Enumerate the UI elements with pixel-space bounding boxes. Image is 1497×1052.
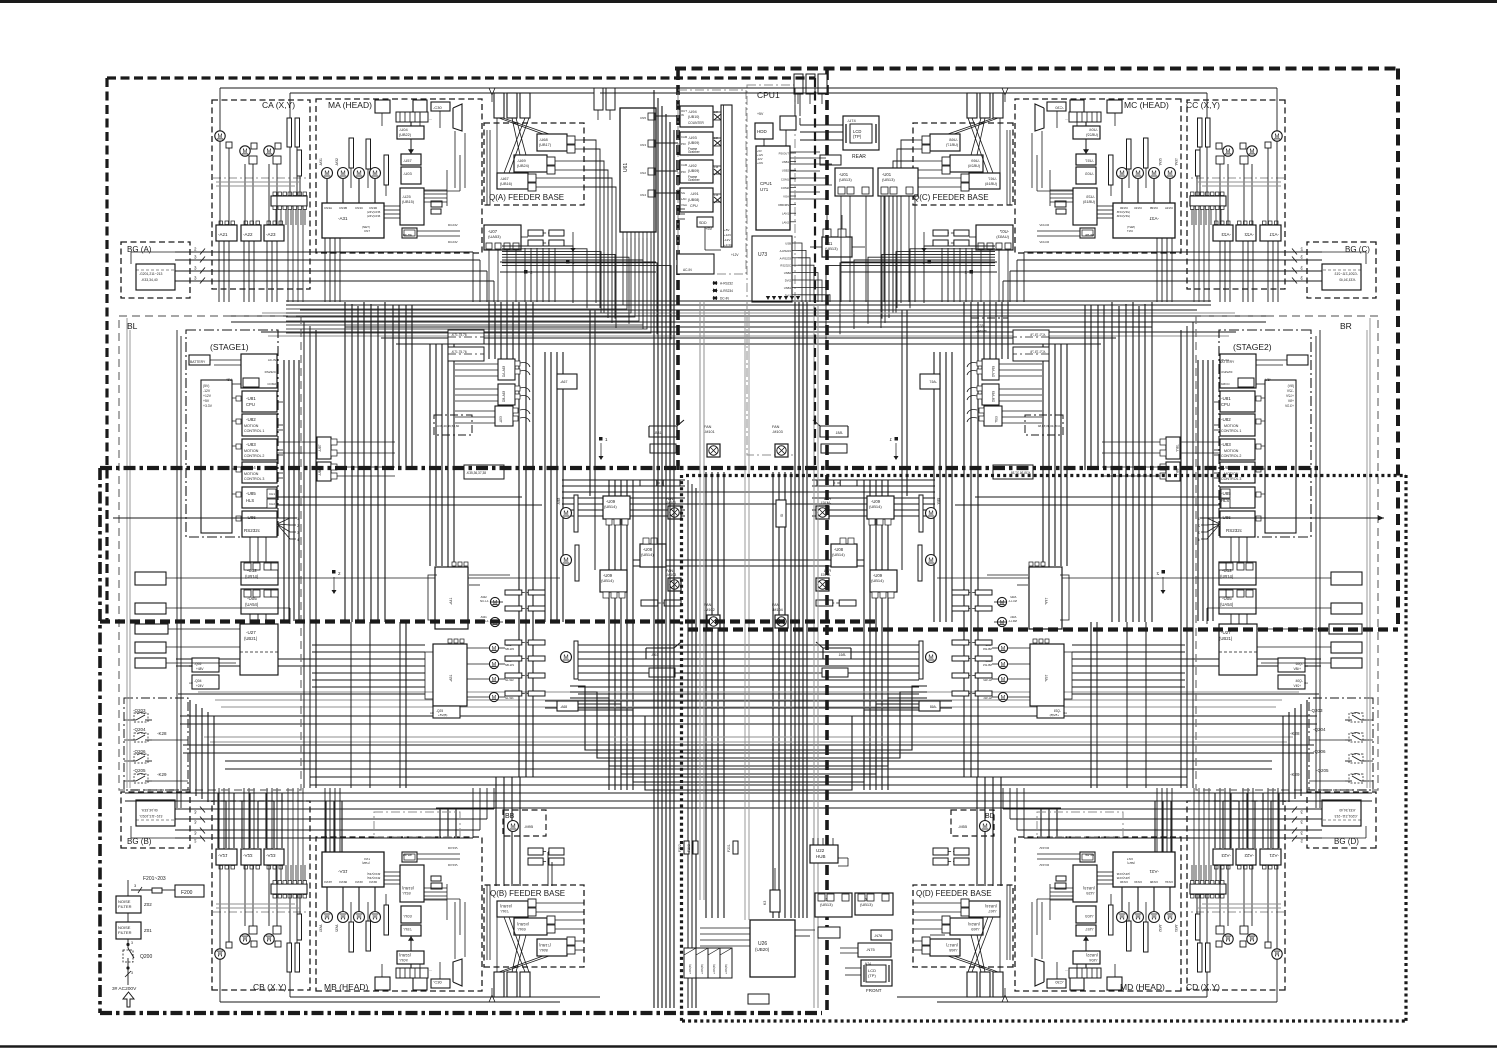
wires U26 to U01 xyxy=(795,929,815,931)
svg-text:-12V: -12V xyxy=(757,157,763,161)
svg-text:DC-IN: DC-IN xyxy=(720,297,730,301)
svg-text:FAN: FAN xyxy=(704,603,712,607)
belt unit BB dashed box xyxy=(503,810,546,836)
svg-text:U73: U73 xyxy=(758,252,767,258)
svg-text:CN2: CN2 xyxy=(640,171,646,175)
svg-text:+24V(B): +24V(B) xyxy=(724,964,728,974)
svg-text:FAN: FAN xyxy=(772,425,780,429)
wires U22 hub xyxy=(812,838,814,845)
hard disk HDD xyxy=(755,123,773,139)
svg-text:-Q204: -Q204 xyxy=(1313,727,1326,732)
svg-text:BATTERY: BATTERY xyxy=(1219,360,1235,364)
svg-text:-M101: -M101 xyxy=(704,430,715,434)
svg-text:CPU1: CPU1 xyxy=(757,90,780,100)
svg-text:(UB14): (UB14) xyxy=(1220,574,1234,579)
zone frame dotted right vertical xyxy=(1404,475,1407,1021)
zone frame top-left right edge xyxy=(814,78,816,470)
svg-text:MA (HEAD): MA (HEAD) xyxy=(328,100,372,110)
svg-text:(UB21): (UB21) xyxy=(244,636,258,641)
svg-text:-U86: -U86 xyxy=(1221,515,1231,520)
blank box bottom of vision rack xyxy=(677,254,714,274)
connector pair above U61 xyxy=(594,88,603,110)
wires U61 pins to CPU1 xyxy=(656,115,678,117)
svg-text:-U12: -U12 xyxy=(247,568,257,573)
fuse F203 xyxy=(693,841,698,854)
svg-text:(UA54): (UA54) xyxy=(245,602,259,607)
aux computer U73 xyxy=(752,236,792,302)
svg-text:(UB20): (UB20) xyxy=(755,947,770,952)
svg-text:F201: F201 xyxy=(727,844,731,852)
svg-text:(UB13): (UB13) xyxy=(882,177,895,182)
wire HDD to U71 xyxy=(763,139,765,146)
svg-text:BR: BR xyxy=(1340,321,1352,331)
wires U73 right fan-out xyxy=(798,243,802,302)
svg-text:-Q205: -Q205 xyxy=(1316,768,1329,773)
svg-text:-U91: -U91 xyxy=(690,191,699,196)
gray box above MB xyxy=(374,812,460,837)
svg-text:RS232C: RS232C xyxy=(780,264,791,268)
zone frame bottom dash-dot xyxy=(100,1011,822,1015)
svg-text:-U94: -U94 xyxy=(688,109,697,114)
svg-text:BG (C): BG (C) xyxy=(1345,245,1370,254)
svg-text:(UB13): (UB13) xyxy=(839,177,852,182)
svg-text:CN4: CN4 xyxy=(640,193,646,197)
svg-text:RS232c: RS232c xyxy=(244,528,261,533)
svg-text:+3.3V: +3.3V xyxy=(724,243,732,247)
svg-text:-N75: -N75 xyxy=(866,947,875,952)
svg-text:MOTION: MOTION xyxy=(1224,472,1239,476)
svg-text:(STAGE1): (STAGE1) xyxy=(210,342,249,352)
svg-text:-Q204: -Q204 xyxy=(133,727,146,732)
svg-text:(UB14): (UB14) xyxy=(641,552,654,557)
circle terminal xyxy=(126,943,129,946)
svg-text:-U05: -U05 xyxy=(1222,596,1232,601)
svg-text:-Q206: -Q206 xyxy=(133,749,146,754)
U61 pin CN3 xyxy=(648,140,655,147)
svg-text:K3: K3 xyxy=(763,901,767,905)
svg-text:HLS: HLS xyxy=(1221,498,1229,503)
svg-text:CH2: CH2 xyxy=(269,502,275,506)
fuse F200 box xyxy=(175,885,204,897)
gray box above MD xyxy=(1037,812,1123,837)
svg-text:-U81: -U81 xyxy=(1221,396,1231,401)
svg-text:-M102: -M102 xyxy=(704,608,715,612)
svg-text:DVI1: DVI1 xyxy=(785,293,792,297)
U61 pin CN4 xyxy=(648,190,655,197)
zone frame left lower edge xyxy=(98,468,102,1013)
operation unit N75 xyxy=(858,943,891,957)
operation unit N76 xyxy=(871,930,892,940)
svg-text:-U82: -U82 xyxy=(246,417,256,422)
svg-text:SDD: SDD xyxy=(699,221,707,225)
svg-text:(TP): (TP) xyxy=(853,134,862,139)
io hub U01 (UB13) bottom left xyxy=(815,893,852,917)
long top wires across center xyxy=(560,87,937,89)
hub U11 (UB13) xyxy=(822,237,852,257)
svg-text:-U84: -U84 xyxy=(1221,465,1231,470)
svg-text:(UB14): (UB14) xyxy=(601,578,614,583)
svg-text:CONTROL 1: CONTROL 1 xyxy=(244,429,264,433)
hub U01 (UB13) second xyxy=(878,168,918,196)
wires U11 region xyxy=(826,215,828,229)
CPU1 main frame bold dashed right edge xyxy=(825,70,829,1013)
svg-text:IN: IN xyxy=(681,113,684,117)
zone frame dotted middle line xyxy=(686,474,1406,477)
svg-text:(STAGE2): (STAGE2) xyxy=(1233,342,1272,352)
frame grabber U92 (UB09) xyxy=(680,160,713,183)
noise filter Z01 xyxy=(116,922,141,939)
jumper box right of HDD xyxy=(780,116,796,130)
zone frame bottom-right bottom dashed xyxy=(688,627,1398,631)
svg-text:VGA: VGA xyxy=(681,203,687,207)
svg-text:FILTER: FILTER xyxy=(118,930,132,935)
display unit U74 LCD TP REAR xyxy=(843,116,879,150)
svg-text:-U93: -U93 xyxy=(688,135,697,140)
gray rack box around CPU column xyxy=(747,85,795,455)
CPU1 main frame bold dashed left edge xyxy=(676,70,680,470)
svg-text:U22: U22 xyxy=(816,848,825,853)
svg-text:U61: U61 xyxy=(623,163,629,172)
svg-text:U71: U71 xyxy=(760,187,769,192)
svg-text:+5V: +5V xyxy=(724,228,729,232)
wire fuse row xyxy=(131,889,152,891)
svg-text:BG (D): BG (D) xyxy=(1334,837,1359,846)
svg-text:CONTROL 2: CONTROL 2 xyxy=(244,454,264,458)
network hub U22 xyxy=(810,845,838,863)
aux box below U01 xyxy=(818,927,840,938)
wires U26 left inputs xyxy=(700,927,750,929)
SI service box xyxy=(776,500,786,527)
svg-text:COM1: COM1 xyxy=(781,177,790,181)
svg-text:COM2: COM2 xyxy=(781,186,790,190)
svg-text:CA (X,Y): CA (X,Y) xyxy=(262,100,295,110)
cpu unit CPU1 U71 xyxy=(756,146,790,230)
svg-text:SG: SG xyxy=(681,191,685,195)
page bottom rule xyxy=(0,1045,1497,1048)
svg-text:-N74: -N74 xyxy=(864,962,871,966)
middle band left half xyxy=(119,301,749,918)
zone frame middle dash-dot line xyxy=(100,466,1320,470)
middle band right half (mirror) xyxy=(749,301,1379,918)
wires CPU right to hubs xyxy=(790,151,820,153)
svg-text:-Q203: -Q203 xyxy=(1310,708,1323,713)
wires U91 LAN etc left exits xyxy=(678,208,685,210)
svg-text:-U05: -U05 xyxy=(247,596,257,601)
svg-text:CONTROL 3: CONTROL 3 xyxy=(1221,477,1241,481)
svg-text:USB1: USB1 xyxy=(784,286,792,290)
svg-text:-Q205: -Q205 xyxy=(133,768,146,773)
wires bottom center xyxy=(547,852,549,886)
svg-text:BB: BB xyxy=(505,813,515,820)
svg-text:-U92: -U92 xyxy=(688,163,697,168)
svg-text:(UB09): (UB09) xyxy=(688,169,699,173)
long wire to right edge with arrow xyxy=(1200,517,1384,519)
svg-text:-U84: -U84 xyxy=(246,465,256,470)
svg-text:(UB09): (UB09) xyxy=(688,141,699,145)
svg-text:-K28: -K28 xyxy=(157,731,167,736)
zone frame bottom-left bottom dashed xyxy=(100,619,878,623)
svg-text:Grabber: Grabber xyxy=(688,178,701,182)
svg-text:USB2: USB2 xyxy=(782,169,790,173)
center vertical wire bundle below CPU xyxy=(794,302,796,918)
svg-text:-C33: -C33 xyxy=(976,324,983,328)
label box left of U01 xyxy=(820,155,841,165)
svg-text:-U86: -U86 xyxy=(246,515,256,520)
svg-text:-U81: -U81 xyxy=(246,396,256,401)
svg-text:AC-IN: AC-IN xyxy=(683,268,692,272)
quadrant top-left machine group xyxy=(121,88,600,302)
svg-text:+12V: +12V xyxy=(724,233,731,237)
bus pin rows xyxy=(713,111,721,113)
svg-text:USB2: USB2 xyxy=(784,271,792,275)
zone frame top-left left edge xyxy=(105,78,108,621)
svg-text:BATTERY: BATTERY xyxy=(190,360,206,364)
wire SDD down xyxy=(704,227,706,250)
svg-text:FAN: FAN xyxy=(772,603,780,607)
wire breaker down xyxy=(127,967,129,985)
svg-text:F200: F200 xyxy=(181,890,193,896)
svg-text:BD: BD xyxy=(985,813,995,820)
svg-text:FILTER: FILTER xyxy=(118,904,132,909)
svg-text:(UB21): (UB21) xyxy=(1219,636,1233,641)
center-left long vertical bundle xyxy=(653,90,655,1008)
cable bars below BD xyxy=(933,848,948,855)
svg-text:MOTION: MOTION xyxy=(244,472,259,476)
svg-text:CONTROL 3: CONTROL 3 xyxy=(244,477,264,481)
svg-text:CPU: CPU xyxy=(246,402,255,407)
gray center verticals xyxy=(699,300,701,900)
svg-text:HDD: HDD xyxy=(757,129,767,134)
svg-text:3: 3 xyxy=(131,971,133,975)
extra center verticals xyxy=(687,480,689,1008)
svg-text:CAM: CAM xyxy=(681,163,688,167)
power terminal cluster xyxy=(684,948,696,978)
zone frame top-right right edge xyxy=(1396,69,1400,630)
power box C33 +48V right side xyxy=(971,318,1008,338)
svg-text:Q200: Q200 xyxy=(140,954,152,960)
svg-text:BG (B): BG (B) xyxy=(127,837,152,846)
svg-text:CPU1: CPU1 xyxy=(760,181,773,186)
svg-text:A-RS233: A-RS233 xyxy=(780,256,792,260)
svg-text:F201~203: F201~203 xyxy=(143,876,166,882)
svg-text:-U27: -U27 xyxy=(1221,630,1231,635)
connector trio on CPU frame top xyxy=(794,74,803,94)
svg-text:VGA: VGA xyxy=(783,195,789,199)
svg-text:MB (HEAD): MB (HEAD) xyxy=(324,982,369,992)
svg-text:-U85: -U85 xyxy=(246,491,256,496)
svg-text:-M103: -M103 xyxy=(772,430,783,434)
svg-text:BL: BL xyxy=(127,321,138,331)
zone frame dotted left vertical xyxy=(680,475,683,1021)
svg-text:Q(C) FEEDER BASE: Q(C) FEEDER BASE xyxy=(913,193,989,202)
svg-text:(UB13): (UB13) xyxy=(820,902,833,907)
svg-text:USB1: USB1 xyxy=(782,160,790,164)
svg-text:+12V: +12V xyxy=(731,253,739,257)
svg-text:Z02: Z02 xyxy=(144,902,152,907)
wires N7x left xyxy=(930,934,945,936)
svg-text:Z01: Z01 xyxy=(144,928,152,933)
svg-text:LAN2: LAN2 xyxy=(782,220,789,224)
svg-text:(UB08): (UB08) xyxy=(688,198,699,202)
svg-text:-K29: -K29 xyxy=(1290,772,1300,777)
frame grabber U93 (UB09) xyxy=(680,132,713,155)
svg-text:FRONT: FRONT xyxy=(866,988,882,993)
svg-text:-M95: -M95 xyxy=(524,824,534,829)
svg-text:MC (HEAD): MC (HEAD) xyxy=(1124,100,1169,110)
svg-text:MOTION: MOTION xyxy=(244,449,259,453)
svg-text:CPU: CPU xyxy=(1221,402,1230,407)
svg-text:BG (A): BG (A) xyxy=(127,245,152,254)
main breaker Q200 xyxy=(127,943,129,948)
svg-text:PS/OUT: PS/OUT xyxy=(779,152,790,156)
quadrant top-right machine group (mirror) xyxy=(897,88,1376,302)
svg-text:+24V: +24V xyxy=(757,161,763,165)
svg-text:(UA54): (UA54) xyxy=(1220,602,1234,607)
quadrant bottom-left machine group (mirror) xyxy=(121,788,600,1002)
page top rule xyxy=(0,0,1497,3)
svg-text:CPU: CPU xyxy=(690,204,698,208)
svg-text:-N76: -N76 xyxy=(874,934,882,938)
U61 pin CN2 xyxy=(648,168,655,175)
svg-text:CAM: CAM xyxy=(681,135,688,139)
svg-text:-K29: -K29 xyxy=(157,772,167,777)
svg-text:F203: F203 xyxy=(687,844,691,852)
wires CPU1 to U74 xyxy=(800,124,843,126)
svg-text:RS232c: RS232c xyxy=(1226,528,1243,533)
svg-text:+5V: +5V xyxy=(705,226,713,231)
svg-text:LAN1: LAN1 xyxy=(782,212,789,216)
svg-text:(UB14): (UB14) xyxy=(871,578,884,583)
zone frame top-left dashed top edge xyxy=(107,76,815,79)
svg-text:+12V: +12V xyxy=(757,153,763,157)
svg-text:CB (X,Y): CB (X,Y) xyxy=(253,982,287,992)
svg-text:LAN: LAN xyxy=(681,197,686,201)
svg-text:-U83: -U83 xyxy=(246,442,256,447)
svg-text:-12V: -12V xyxy=(724,238,730,242)
svg-text:CONTROL 2: CONTROL 2 xyxy=(1221,454,1241,458)
svg-text:MOTION: MOTION xyxy=(244,424,259,428)
svg-text:+5V: +5V xyxy=(757,149,762,153)
svg-text:CONTROL 1: CONTROL 1 xyxy=(1221,429,1241,433)
svg-text:KBD/MS: KBD/MS xyxy=(778,203,789,207)
svg-text:-U82: -U82 xyxy=(1221,417,1231,422)
svg-text:-M55: -M55 xyxy=(958,824,968,829)
svg-text:CD (X,Y): CD (X,Y) xyxy=(1186,982,1220,992)
svg-text:HUB: HUB xyxy=(816,854,826,859)
svg-text:+24V(B): +24V(B) xyxy=(688,964,692,974)
svg-text:(TP): (TP) xyxy=(868,973,876,978)
svg-text:MD (HEAD): MD (HEAD) xyxy=(1120,982,1165,992)
gray inner box of vision units xyxy=(678,90,746,274)
svg-text:Q(B) FEEDER BASE: Q(B) FEEDER BASE xyxy=(490,889,565,898)
svg-text:HLS: HLS xyxy=(246,498,254,503)
wire bundle U61 down to rows xyxy=(286,238,623,305)
main io unit U26 (UB20) xyxy=(750,920,795,977)
svg-text:A-RS234: A-RS234 xyxy=(720,289,733,293)
supply arrow symbol xyxy=(123,992,134,1007)
fuse element xyxy=(152,888,162,893)
svg-text:Grabber: Grabber xyxy=(688,150,701,154)
svg-text:(UB14): (UB14) xyxy=(832,552,845,557)
hub U01 (UB13) first xyxy=(835,168,873,196)
svg-text:-M104: -M104 xyxy=(772,608,783,612)
wire K3 up xyxy=(774,868,776,890)
wire mains vertical xyxy=(127,880,129,896)
svg-text:COUNTER: COUNTER xyxy=(688,121,704,125)
fuse F201 xyxy=(733,841,738,854)
svg-text:3# AC200V: 3# AC200V xyxy=(112,986,137,992)
U61 pin CN5 xyxy=(648,113,655,120)
display N74 LCD TP FRONT xyxy=(861,960,892,986)
svg-text:PIO: PIO xyxy=(681,142,687,146)
svg-text:(UB14): (UB14) xyxy=(604,504,617,509)
svg-text:MOTION: MOTION xyxy=(1224,449,1239,453)
fuse F202 xyxy=(684,841,689,854)
svg-text:3: 3 xyxy=(131,941,133,945)
svg-text:USB: USB xyxy=(785,242,791,246)
svg-text:+24V(B): +24V(B) xyxy=(712,964,716,974)
cable bars below BB xyxy=(528,848,543,855)
power bus bar of vision rack xyxy=(721,105,732,247)
svg-text:-Q203: -Q203 xyxy=(133,708,146,713)
svg-text:CN3: CN3 xyxy=(640,143,646,147)
quadrant bottom-right machine group (mirror) xyxy=(897,788,1376,1002)
svg-text:-U74: -U74 xyxy=(847,118,856,123)
svg-text:-U12: -U12 xyxy=(1222,568,1232,573)
belt unit BD dashed box xyxy=(951,810,994,836)
svg-text:(UB10): (UB10) xyxy=(688,115,699,119)
camera interface U61 xyxy=(620,108,656,232)
zone frame top-right top edge xyxy=(675,67,1398,71)
relay K3 xyxy=(770,890,780,912)
svg-text:A-RS232: A-RS232 xyxy=(720,282,733,286)
svg-text:CH1: CH1 xyxy=(269,492,275,496)
svg-text:(UB13): (UB13) xyxy=(860,902,873,907)
connector block U07 left xyxy=(484,140,671,339)
U61 bottom pin comb xyxy=(622,232,624,238)
counter unit U94 (UB10) xyxy=(680,106,713,127)
noise filter Z02 xyxy=(116,896,141,913)
svg-text:-U27: -U27 xyxy=(246,630,256,635)
vision CPU U91 (UB08) xyxy=(680,188,713,212)
svg-text:FAN: FAN xyxy=(704,425,712,429)
svg-text:REAR: REAR xyxy=(852,154,866,160)
svg-text:-U83: -U83 xyxy=(1221,442,1231,447)
svg-text:Q(D) FEEDER BASE: Q(D) FEEDER BASE xyxy=(916,889,992,898)
SDD box in CPU column xyxy=(697,217,713,227)
svg-text:+5V: +5V xyxy=(757,112,764,116)
svg-text:A-RS231: A-RS231 xyxy=(780,249,792,253)
svg-text:CC (X,Y): CC (X,Y) xyxy=(1186,100,1220,110)
box below U26 xyxy=(748,994,769,1004)
svg-text:(UB14): (UB14) xyxy=(245,574,259,579)
svg-text:+48V(B): +48V(B) xyxy=(976,329,987,333)
svg-text:SI: SI xyxy=(780,514,784,517)
svg-text:PIO: PIO xyxy=(681,170,687,174)
long wire left half xyxy=(113,517,297,519)
svg-text:-K28: -K28 xyxy=(1290,731,1300,736)
cross connect marks 134 xyxy=(714,114,721,120)
svg-text:CN5: CN5 xyxy=(640,116,646,120)
wires U01 hubs down xyxy=(840,196,842,302)
svg-text:(UB14): (UB14) xyxy=(869,504,882,509)
svg-text:-Q206: -Q206 xyxy=(1313,749,1326,754)
svg-text:DVI2: DVI2 xyxy=(785,279,792,283)
zone frame bottom dotted xyxy=(682,1019,1406,1022)
connector block U07 right (mirror) xyxy=(826,140,1013,339)
svg-text:-U85: -U85 xyxy=(1221,491,1231,496)
svg-text:Q(A) FEEDER BASE: Q(A) FEEDER BASE xyxy=(489,193,564,202)
